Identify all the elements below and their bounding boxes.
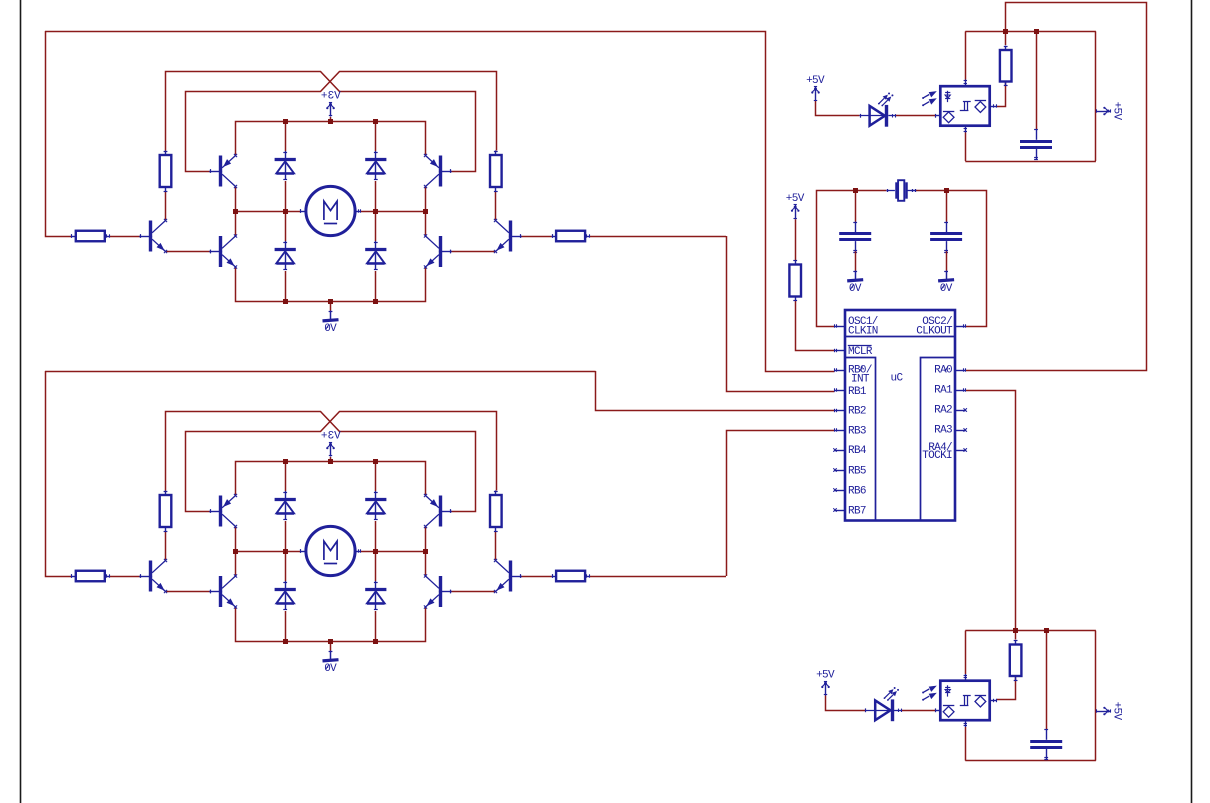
wire top sensor resistor to output <box>997 82 1006 107</box>
transistor bridge2 left driver (NPN) <box>139 559 167 593</box>
bottom sensor output diamond <box>975 696 986 707</box>
wire top sensor LED to box <box>896 115 936 117</box>
top sensor bottom pin <box>964 127 967 133</box>
wire bottom sensor box bottom drop <box>965 727 967 761</box>
svg-text:CLKIN: CLKIN <box>848 325 878 337</box>
wire bottom sensor resistor feed <box>1015 631 1017 640</box>
bottom sensor schmitt trigger symbol <box>960 696 971 706</box>
wire bottom sensor top rail <box>965 630 1096 632</box>
capacitor C2 (OSC1 load) <box>839 222 871 253</box>
top sensor received light arrows <box>922 91 937 106</box>
junction <box>283 459 288 464</box>
resistor bridge2 left collector <box>160 491 172 532</box>
wire bridge2 crossover left-resistor to right base <box>166 412 476 512</box>
wire bridge2 left input from x=45 <box>46 371 72 577</box>
svg-text:RB6: RB6 <box>848 485 866 497</box>
top sensor schmitt trigger symbol <box>960 101 971 111</box>
wire RA1 net to bottom sensor <box>966 391 1016 631</box>
power +5V bottom sensor LED supply <box>816 669 835 695</box>
wire bridge1 mid rail right <box>361 211 426 213</box>
transistor bridge2 upper-left (PNP) <box>209 494 237 528</box>
opto sensor bottom sensor <box>940 681 989 721</box>
wire RB3 net (bridge2 right) <box>727 431 835 577</box>
resistor MCLR pull-up <box>789 260 801 301</box>
ground 0V below C3 <box>938 271 954 296</box>
junction <box>283 299 288 304</box>
bottom sensor left pin <box>936 708 940 712</box>
diode bridge2 upper-right freewheel <box>365 491 386 520</box>
diode bridge2 lower-right freewheel <box>365 581 386 610</box>
svg-text:RB1: RB1 <box>848 386 867 398</box>
transistor bridge2 lower-left (NPN) <box>209 574 237 608</box>
wire top sensor box bottom drop <box>965 133 967 162</box>
diode bridge2 upper-left freewheel <box>275 491 296 520</box>
svg-text:CLKOUT: CLKOUT <box>916 325 953 337</box>
svg-text:+5V: +5V <box>1111 702 1123 721</box>
svg-text:+: + <box>321 90 327 102</box>
transistor bridge1 upper-left (PNP) <box>209 154 237 188</box>
junction <box>283 549 288 554</box>
top sensor left pin <box>936 114 940 118</box>
bottom sensor output pin <box>991 699 997 702</box>
svg-text:RB5: RB5 <box>848 465 866 477</box>
wire bottom sensor right rail <box>1095 631 1097 761</box>
uC pin RB5 <box>833 468 845 471</box>
wire bridge1 diode col 1 bottom <box>285 271 287 301</box>
uC pin RA3 <box>955 428 967 431</box>
wire RB2 net drop <box>596 371 835 411</box>
wire bridge1 right driver collector <box>495 192 497 221</box>
opto sensor top sensor <box>940 86 989 126</box>
uC pin RB7 <box>833 508 845 511</box>
wire bottom sensor cap feed <box>1046 631 1048 730</box>
wire bottom sensor +5V drop to LED <box>826 696 866 711</box>
uC pin RB4 <box>833 448 845 451</box>
junction <box>373 639 378 644</box>
wire bridge1 left driver emitter to lower-left base <box>166 251 211 253</box>
wire bridge1 +3V stub <box>330 117 332 121</box>
svg-text:+5V: +5V <box>806 75 825 87</box>
resistor bottom sensor pull-up <box>1010 640 1022 681</box>
capacitor bottom sensor filter cap <box>1030 729 1062 760</box>
wire C2 top lead <box>855 191 857 222</box>
wire bridge2 diode col 1 bottom <box>285 611 287 641</box>
wire bridge2 0V stub <box>330 641 332 651</box>
resistor top sensor pull-up <box>1000 46 1012 87</box>
svg-text:RA0: RA0 <box>934 364 952 376</box>
junction <box>328 639 333 644</box>
svg-text:+: + <box>321 430 327 442</box>
junction <box>283 119 288 124</box>
wire bottom sensor bottom rail <box>965 760 1096 762</box>
wire bridge1 crossover left-base to right-resistor <box>186 72 497 172</box>
wire RB2 net (bridge2 left) <box>45 371 596 373</box>
uC pin RA2 <box>955 408 967 411</box>
wire bridge2 right driver base to resistor <box>521 576 552 578</box>
wire bridge1 mid rail <box>236 211 301 213</box>
junction <box>328 119 333 124</box>
diode bridge1 lower-right freewheel <box>365 241 386 270</box>
transistor bridge2 right driver (NPN) <box>494 559 522 593</box>
wire bridge2 mid rail <box>236 551 301 553</box>
uC pin RB0/INT <box>835 368 846 371</box>
wire OSC1 net <box>817 191 887 327</box>
transistor bridge2 upper-right (PNP) <box>424 494 452 528</box>
uC pin RB2 <box>835 409 846 412</box>
wire bridge2 crossover left-base to right-resistor <box>186 412 497 512</box>
uC pin MCLR <box>835 349 846 352</box>
wire bridge2 left resistor to driver base <box>109 576 140 578</box>
wire bridge2 left column mid <box>235 527 237 577</box>
transistor bridge1 left driver (NPN) <box>139 219 167 253</box>
resistor bridge1 right collector <box>490 151 502 192</box>
diode bridge1 lower-left freewheel <box>275 241 296 270</box>
motor M of bridge1 <box>300 186 360 235</box>
resistor bridge1 left base <box>71 231 109 242</box>
wire bridge1 diode col 2 bottom <box>375 271 377 301</box>
diode bridge1 upper-left freewheel <box>275 151 296 180</box>
transistor bridge1 right driver (NPN) <box>494 219 522 253</box>
wire top sensor resistor feed <box>1005 31 1007 45</box>
wire bridge2 +3V stub <box>330 457 332 461</box>
junction <box>423 549 428 554</box>
wire top sensor +5V drop to LED <box>816 101 860 116</box>
uC pin RA1 <box>955 388 966 391</box>
wire RB1 net (bridge1 right) <box>727 236 835 392</box>
junction <box>283 209 288 214</box>
LED bottom sensor emitter <box>865 687 902 721</box>
junction <box>328 299 333 304</box>
sheet border right <box>1191 0 1193 803</box>
wire crystal to OSC2 loop <box>915 191 987 327</box>
wire bridge2 right driver collector <box>495 532 497 561</box>
transistor bridge1 lower-right (NPN) <box>424 234 452 268</box>
wire bridge1 right driver emitter to lower-right base <box>451 251 496 253</box>
uC pin OSC1/CLKIN <box>835 324 846 327</box>
wire bridge2 mid rail right <box>361 551 426 553</box>
svg-text:+5V: +5V <box>1111 102 1123 121</box>
junction <box>1003 29 1008 34</box>
svg-text:RA2: RA2 <box>934 404 952 416</box>
bottom sensor bottom pin <box>964 721 967 727</box>
svg-text:RB2: RB2 <box>848 405 866 417</box>
wire bridge2 left driver emitter to lower-left base <box>166 591 211 593</box>
power +3V of bridge1 <box>321 90 341 116</box>
junction <box>233 549 238 554</box>
bottom sensor received light arrows <box>922 686 937 701</box>
uC pin OSC2/CLKOUT <box>955 324 966 327</box>
svg-text:RA3: RA3 <box>934 424 952 436</box>
wire bridge1 left input from x=45 <box>46 31 72 237</box>
power +5V top sensor LED supply <box>806 75 825 101</box>
junction <box>1044 628 1049 633</box>
power +5V bottom sensor rail supply <box>1096 702 1123 721</box>
uC pin RB3 <box>835 428 846 431</box>
top sensor input diamond <box>943 112 954 123</box>
LED top sensor emitter <box>859 92 895 126</box>
bottom sensor input diamond <box>943 706 954 718</box>
svg-text:MCLR: MCLR <box>848 346 873 358</box>
uC pin RA0 <box>955 368 966 371</box>
wire bridge2 diode col 2 mid <box>375 521 377 581</box>
wire bridge2 diode col 1 mid <box>285 521 287 581</box>
wire bridge1 bottom rail <box>236 267 426 302</box>
wire bridge1 left driver collector <box>165 192 167 221</box>
wire bridge1 diode col 2 mid <box>375 181 377 241</box>
junction <box>853 188 858 193</box>
wire C3 bottom lead <box>946 251 948 270</box>
wire MCLR +5V to resistor <box>795 219 797 261</box>
wire bridge2 right column mid <box>425 527 427 577</box>
power +3V of bridge2 <box>321 430 341 456</box>
crystal XTAL <box>886 180 916 201</box>
ground 0V below C2 <box>847 271 863 296</box>
wire top sensor top rail <box>965 31 1096 33</box>
svg-text:RB3: RB3 <box>848 425 866 437</box>
wire RB0 net (bridge1 left) <box>45 32 835 372</box>
wire bridge2 diode col 2 bottom <box>375 611 377 641</box>
transistor bridge1 lower-left (NPN) <box>209 234 237 268</box>
wire bridge1 diode col 1 top <box>285 121 287 151</box>
top sensor top pin <box>964 80 967 86</box>
ground 0V of bridge1 <box>323 311 339 336</box>
wire bridge1 0V stub <box>330 301 332 311</box>
junction <box>423 209 428 214</box>
uC pin RA4/TOCKI <box>955 448 967 451</box>
junction <box>944 188 949 193</box>
bottom sensor internal photodiode <box>945 685 950 696</box>
wire C2 bottom lead <box>855 251 857 270</box>
junction <box>1013 628 1018 633</box>
uC pin RB6 <box>833 488 845 491</box>
resistor bridge2 left base <box>71 571 109 582</box>
wire bridge1 right driver base to resistor <box>521 236 552 238</box>
microcontroller uC <box>845 310 955 521</box>
resistor bridge1 right base <box>552 231 590 242</box>
wire bridge1 right resistor to RB wire <box>590 236 726 238</box>
wire bridge2 right driver emitter to lower-right base <box>451 591 496 593</box>
junction <box>373 209 378 214</box>
junction <box>328 459 333 464</box>
wire bridge1 top rail <box>236 122 426 156</box>
junction <box>233 209 238 214</box>
svg-text:RA1: RA1 <box>934 384 953 396</box>
wire bridge1 left resistor to driver base <box>109 236 140 238</box>
wire top sensor right rail <box>1095 31 1097 161</box>
wire bottom sensor resistor to output <box>997 676 1016 700</box>
resistor bridge2 right collector <box>490 491 502 532</box>
resistor bridge1 left collector <box>160 151 172 192</box>
wire bridge2 diode col 2 top <box>375 461 377 491</box>
wire bridge2 right resistor to RB wire <box>590 576 726 578</box>
junction <box>373 119 378 124</box>
wire bridge2 diode col 1 top <box>285 461 287 491</box>
wire top sensor cap feed <box>1036 31 1038 129</box>
junction <box>373 549 378 554</box>
transistor bridge2 lower-right (NPN) <box>424 574 452 608</box>
svg-text:+5V: +5V <box>816 669 835 681</box>
wire bridge2 bottom rail <box>236 607 426 642</box>
wire top sensor box top feed <box>965 31 967 79</box>
wire bridge2 left driver collector <box>165 532 167 561</box>
resistor bridge2 right base <box>552 571 590 582</box>
wire top sensor bottom rail <box>965 161 1096 163</box>
uC pin RB1 <box>835 388 846 391</box>
svg-text:TOCKI: TOCKI <box>922 450 952 462</box>
top sensor internal photodiode <box>945 91 950 102</box>
svg-text:V: V <box>334 430 341 442</box>
wire bridge2 top rail <box>236 462 426 496</box>
wire RA0 net to top sensor <box>966 3 1147 371</box>
wire bridge1 crossover left-resistor to right base <box>166 72 476 172</box>
wire bridge1 left column mid <box>235 187 237 237</box>
power +5V top sensor rail supply <box>1096 102 1123 121</box>
capacitor top sensor filter cap <box>1020 129 1052 160</box>
junction <box>283 639 288 644</box>
bottom sensor top pin <box>964 674 967 680</box>
svg-text:INT: INT <box>851 374 870 386</box>
svg-text:uC: uC <box>891 373 904 385</box>
wire bridge1 right column mid <box>425 187 427 237</box>
wire bridge1 diode col 1 mid <box>285 181 287 241</box>
svg-text:RB4: RB4 <box>848 445 867 457</box>
sheet border left <box>20 0 22 803</box>
transistor bridge1 upper-right (PNP) <box>424 154 452 188</box>
top sensor output pin <box>991 104 997 107</box>
wire bottom sensor LED to box <box>901 710 935 712</box>
power +5V for MCLR <box>786 193 805 219</box>
svg-text:RB7: RB7 <box>848 505 866 517</box>
junction <box>373 299 378 304</box>
ground 0V of bridge2 <box>323 651 339 676</box>
junction <box>1034 29 1039 34</box>
diode bridge2 lower-left freewheel <box>275 581 296 610</box>
svg-text:+5V: +5V <box>786 193 805 205</box>
junction <box>373 459 378 464</box>
wire MCLR resistor to pin <box>796 301 835 351</box>
capacitor C3 (OSC2 load) <box>930 222 962 253</box>
top sensor output diamond <box>975 101 986 113</box>
wire bottom sensor box top feed <box>965 631 967 674</box>
wire C3 top lead <box>946 191 948 222</box>
diode bridge1 upper-right freewheel <box>365 151 386 180</box>
wire bridge1 diode col 2 top <box>375 121 377 151</box>
motor M of bridge2 <box>300 526 360 575</box>
svg-text:V: V <box>334 90 341 102</box>
